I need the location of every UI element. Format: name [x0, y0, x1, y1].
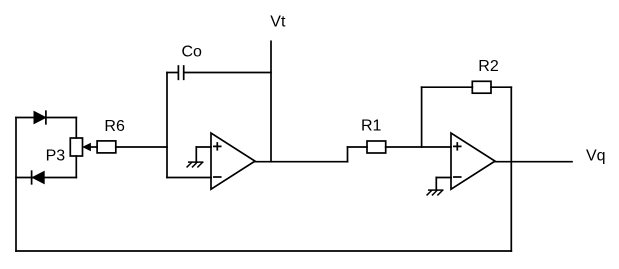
ground [187, 162, 203, 167]
capacitor Co [178, 66, 183, 79]
wire to R1 [348, 146, 368, 148]
wire ground stem U1 [195, 147, 197, 162]
node Vt vertical lead [270, 41, 272, 161]
svg-text:R6: R6 [104, 118, 125, 135]
resistor R1 [367, 141, 386, 153]
op-amp U2 [451, 133, 495, 189]
wire R2 left vertical [421, 87, 423, 147]
wire to U1 inverting input [167, 177, 211, 179]
wire bottom rail [16, 250, 511, 252]
wire top feedback left [422, 86, 473, 88]
wire top feedback right [491, 86, 511, 88]
P3 wiper arrow [83, 144, 97, 151]
potentiometer P3 [70, 138, 82, 156]
svg-text:Co: Co [182, 44, 203, 61]
wire U1 non-inverting input [196, 146, 211, 148]
wire U2 inverting input [436, 177, 451, 179]
svg-text:Vq: Vq [586, 148, 606, 165]
svg-text:P3: P3 [46, 147, 66, 164]
diode D1 [34, 111, 46, 124]
svg-text:Vt: Vt [270, 14, 286, 31]
wire top diode branch [16, 117, 76, 119]
op-amp U1 [211, 133, 255, 189]
ground [427, 190, 443, 195]
wire bottom diode branch [16, 177, 76, 179]
wire right vertical rail [510, 87, 512, 251]
wire U1 output [255, 161, 348, 163]
svg-text:R2: R2 [478, 58, 499, 75]
wire step up [347, 147, 349, 162]
wire Co left lead [167, 72, 178, 74]
resistor R6 [97, 141, 116, 153]
wire U2 output to Vq [495, 161, 572, 163]
wire R1 to U2 non-inverting input [386, 146, 451, 148]
wire P3 top stub [75, 118, 77, 139]
diode D2 [32, 171, 45, 184]
wire feedback vertical (Co to inverting input) [166, 73, 168, 178]
wire R6 to inverting node [116, 146, 167, 148]
wire ground stem U2 [435, 178, 437, 191]
svg-text:R1: R1 [361, 118, 382, 135]
wire P3 bottom stub [75, 156, 77, 178]
wire left vertical rail [15, 118, 17, 252]
wire Co right lead [184, 72, 271, 74]
resistor R2 [472, 81, 491, 93]
